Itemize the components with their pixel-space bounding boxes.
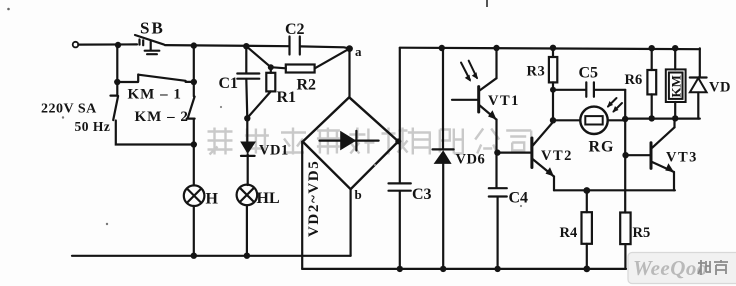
- svg-text:KM – 1: KM – 1: [128, 87, 182, 103]
- svg-text:R1: R1: [277, 89, 297, 106]
- svg-text:VT1: VT1: [488, 93, 520, 109]
- svg-text:C1: C1: [219, 75, 239, 92]
- svg-text:C2: C2: [285, 21, 305, 38]
- svg-text:VD1: VD1: [259, 143, 289, 159]
- svg-text:R2: R2: [297, 77, 317, 94]
- svg-text:KM: KM: [669, 75, 684, 97]
- svg-text:H: H: [206, 191, 219, 208]
- svg-text:VD: VD: [709, 80, 731, 96]
- svg-text:HL: HL: [257, 190, 280, 207]
- svg-text:SB: SB: [140, 19, 165, 38]
- svg-text:a: a: [355, 44, 362, 59]
- svg-text:KM – 2: KM – 2: [135, 109, 189, 125]
- svg-text:50 Hz: 50 Hz: [75, 119, 111, 134]
- svg-text:R6: R6: [625, 72, 643, 88]
- svg-text:VD6: VD6: [456, 152, 486, 168]
- svg-text:VT3: VT3: [666, 150, 698, 166]
- svg-text:RG: RG: [589, 139, 615, 156]
- svg-text:VT2: VT2: [541, 148, 573, 164]
- svg-text:C3: C3: [412, 186, 432, 203]
- svg-text:b: b: [355, 187, 362, 202]
- svg-text:VD2~VD5: VD2~VD5: [306, 160, 322, 237]
- svg-text:R4: R4: [560, 225, 578, 241]
- svg-text:220V SA: 220V SA: [41, 102, 97, 117]
- svg-text:C5: C5: [579, 65, 599, 82]
- svg-text:R3: R3: [527, 64, 546, 80]
- svg-text:C4: C4: [509, 190, 529, 207]
- svg-text:WeeQoo: WeeQoo: [633, 256, 708, 280]
- svg-text:R5: R5: [633, 225, 651, 241]
